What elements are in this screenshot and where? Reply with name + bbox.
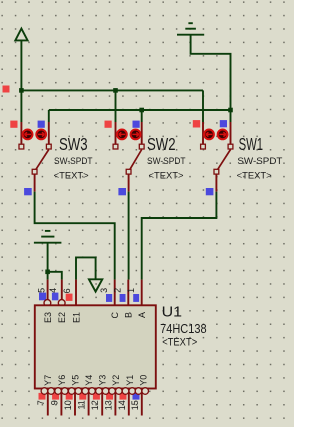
pin A <box>141 280 143 305</box>
svg-text:Y3: Y3 <box>98 375 108 386</box>
switch SW1 marker blue <box>220 120 227 127</box>
marker SW1 pole blue <box>206 188 214 195</box>
svg-text:SW-SPDT: SW-SPDT <box>147 156 186 167</box>
wire SW1 left throw <box>202 90 204 122</box>
pin SW2 right throw <box>141 122 143 144</box>
svg-text:SW1: SW1 <box>239 134 264 154</box>
svg-text:9: 9 <box>49 400 59 405</box>
node junction power SW3 <box>19 88 24 93</box>
pin SW2 left throw <box>115 122 117 144</box>
svg-text:E3: E3 <box>43 312 53 323</box>
wire ground top to bus <box>191 35 231 110</box>
pin E1 <box>75 280 77 305</box>
pin E3 <box>47 280 49 300</box>
marker E1 red <box>66 294 73 301</box>
pin E2 <box>61 280 63 300</box>
marker SW2 pole blue <box>118 188 126 195</box>
svg-text:B: B <box>124 312 134 318</box>
svg-text:1: 1 <box>126 288 136 293</box>
svg-text:10: 10 <box>63 400 73 410</box>
bubble E2 <box>58 300 65 307</box>
svg-text:Y4: Y4 <box>84 375 94 386</box>
ground symbol near chip <box>34 231 62 243</box>
switch SW2 toggle left <box>117 130 127 140</box>
svg-text:A: A <box>137 312 147 318</box>
wire ground2 to E3 <box>47 272 49 280</box>
svg-text:E2: E2 <box>57 312 67 323</box>
svg-text:15: 15 <box>130 400 140 410</box>
svg-text:14: 14 <box>117 400 127 410</box>
svg-text:Y6: Y6 <box>57 375 67 386</box>
wire SW3 pole to pin C <box>35 192 115 280</box>
switch SW2 marker blue <box>133 121 140 128</box>
switch SW3 toggle left <box>23 130 33 140</box>
switch SW2 toggle right <box>131 130 141 140</box>
pin SW2 pole <box>128 174 130 192</box>
pad SW1 left throw <box>201 144 206 149</box>
switch SW3 marker red <box>10 121 17 128</box>
marker C blue <box>106 294 112 302</box>
marker B blue <box>120 294 126 302</box>
switch SW3 lever <box>36 150 49 170</box>
svg-text:C: C <box>110 312 120 319</box>
pins Y7..Y0 <box>48 389 142 416</box>
ground symbol top <box>177 23 204 35</box>
pad SW2 left throw <box>113 144 118 149</box>
switch SW2 lever <box>130 150 142 170</box>
wire SW1 right throw <box>230 110 232 122</box>
labels Y7..Y0 <box>43 375 148 386</box>
wire SW2 left throw <box>115 90 117 122</box>
switch SW1 toggle left <box>204 130 214 140</box>
svg-text:74HC138: 74HC138 <box>160 322 207 336</box>
marker SW3 pole blue <box>24 188 32 195</box>
node junction ground SW2 <box>139 108 144 113</box>
switch SW3 marker blue <box>38 121 45 128</box>
pad SW3 right throw <box>46 144 51 149</box>
svg-text:Y5: Y5 <box>70 375 80 386</box>
svg-text:U1: U1 <box>162 303 183 320</box>
wire power stem <box>20 40 22 90</box>
svg-text:7: 7 <box>36 400 46 405</box>
pin C <box>114 280 116 305</box>
pin SW3 left throw <box>20 122 22 144</box>
pin numbers Y row <box>36 400 140 410</box>
svg-text:2: 2 <box>113 288 123 293</box>
pad SW1 pole <box>214 169 219 174</box>
wire ground2 stem <box>47 243 49 272</box>
pad SW1 right throw <box>228 144 233 149</box>
op chip U1 74HC138 body <box>35 305 156 388</box>
svg-text:Y2: Y2 <box>111 375 121 386</box>
wire ground bus <box>49 109 231 111</box>
bubbles output row <box>41 388 148 395</box>
node junction power SW2 <box>113 88 118 93</box>
switch SW2 marker red <box>105 121 112 128</box>
marker E2 blue <box>52 293 59 301</box>
svg-text:11: 11 <box>77 400 87 409</box>
wire ground2 to E2 <box>48 272 62 280</box>
wire power bus <box>21 89 203 91</box>
pin SW1 left throw <box>202 122 204 144</box>
svg-text:<TEXT>: <TEXT> <box>54 170 89 181</box>
pin B <box>127 280 129 305</box>
switch SW1 toggle right <box>218 130 228 140</box>
svg-text:E1: E1 <box>71 312 81 323</box>
switch SW1 lever <box>218 150 231 170</box>
markers Y pins <box>39 393 140 400</box>
pad SW3 pole <box>32 169 37 174</box>
svg-text:13: 13 <box>103 400 113 410</box>
pad SW3 left throw <box>19 144 24 149</box>
svg-text:6: 6 <box>62 288 72 293</box>
svg-text:12: 12 <box>90 400 100 410</box>
svg-text:SW3: SW3 <box>59 134 88 154</box>
switch SW1 marker red <box>193 120 200 127</box>
pad SW2 pole <box>126 169 131 174</box>
svg-text:SW-SPDT: SW-SPDT <box>237 156 282 167</box>
svg-text:Y0: Y0 <box>138 375 148 386</box>
wire SW2 right throw <box>141 110 143 122</box>
pin SW3 right throw <box>48 122 50 144</box>
switch SW3 toggle right <box>36 130 46 140</box>
svg-text:<TEXT>: <TEXT> <box>162 336 197 348</box>
wire SW1 pole to pin A <box>142 192 217 280</box>
svg-text:4: 4 <box>48 288 58 293</box>
wire SW3 left throw <box>20 90 22 122</box>
pin SW1 pole <box>215 174 217 192</box>
node junction ground2 <box>45 270 50 275</box>
pin SW3 pole <box>34 174 36 192</box>
wire E1 to arrow <box>76 257 96 279</box>
node junction ground SW1 <box>228 108 233 113</box>
wire SW2 pole to pin B <box>128 192 130 280</box>
svg-text:<TEXT>: <TEXT> <box>149 170 184 181</box>
svg-text:<TEXT>: <TEXT> <box>237 170 272 181</box>
svg-text:Y7: Y7 <box>43 375 53 386</box>
svg-text:Y1: Y1 <box>125 375 135 386</box>
marker E3 blue <box>39 293 46 301</box>
marker A blue <box>133 294 139 302</box>
wire SW3 right throw <box>48 110 50 122</box>
power terminal arrow <box>15 29 27 41</box>
bubble E3 <box>44 300 51 307</box>
stray red marker left edge <box>3 86 10 93</box>
pad SW2 right throw <box>139 144 144 149</box>
svg-text:SW-SPDT: SW-SPDT <box>54 156 93 167</box>
pin SW1 right throw <box>230 122 232 144</box>
svg-text:SW2: SW2 <box>147 134 176 154</box>
svg-text:3: 3 <box>99 288 109 293</box>
svg-text:5: 5 <box>36 288 46 293</box>
terminal arrow down E1 <box>89 279 102 291</box>
